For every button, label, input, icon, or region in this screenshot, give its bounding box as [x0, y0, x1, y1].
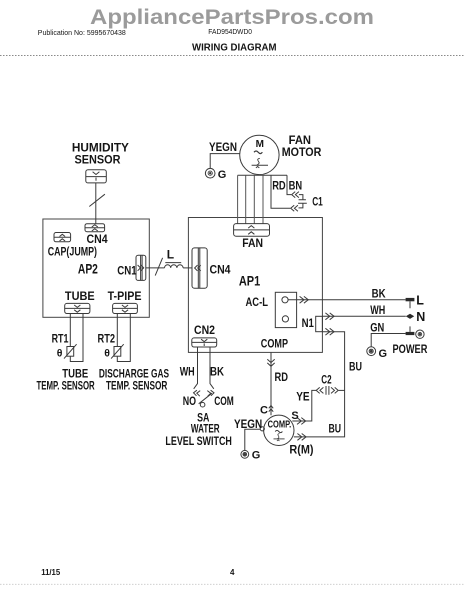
- svg-text:BU: BU: [329, 422, 342, 436]
- svg-text:FAN: FAN: [242, 236, 263, 250]
- wire BK to L terminal: [288, 299, 406, 301]
- svg-text:G: G: [218, 169, 227, 181]
- arrows down on RD wire: [267, 359, 274, 366]
- header dotted rule: [0, 55, 464, 57]
- label FAN MOTOR: [282, 133, 322, 159]
- wire RD to capacitor C1: [271, 175, 290, 208]
- svg-text:4: 4: [230, 568, 235, 577]
- svg-text:C: C: [260, 405, 268, 417]
- svg-text:R(M): R(M): [289, 443, 313, 457]
- label SA WATER LEVEL SWITCH: [165, 411, 232, 449]
- svg-text:L: L: [416, 294, 424, 308]
- svg-text:C2: C2: [321, 375, 331, 387]
- svg-text:WATER: WATER: [191, 424, 220, 436]
- svg-text:DISCHARGE GAS: DISCHARGE GAS: [99, 368, 169, 380]
- svg-text:FAD954DWD0: FAD954DWD0: [208, 27, 252, 36]
- wire GN to ground G: [371, 334, 405, 347]
- connector FAN: [234, 224, 270, 250]
- wire inductor to CN4 (AP1): [183, 267, 192, 269]
- terminal arrows BN: [292, 192, 299, 198]
- svg-text:SA: SA: [197, 411, 210, 425]
- svg-text:G: G: [252, 449, 261, 461]
- capacitor C2: [316, 375, 344, 395]
- svg-text:YE: YE: [296, 390, 309, 404]
- svg-text:GN: GN: [370, 320, 384, 334]
- connector TUBE: [65, 289, 95, 314]
- power terminal ground: [406, 326, 424, 338]
- terminal arrows BK: [300, 296, 309, 303]
- svg-text:CN1: CN1: [117, 264, 137, 278]
- svg-text:L: L: [167, 248, 174, 262]
- svg-text:BK: BK: [372, 286, 386, 300]
- wire BK from CN2 to switch COM: [210, 347, 214, 389]
- svg-text:CN2: CN2: [194, 323, 215, 337]
- svg-text:COMP.: COMP.: [268, 418, 292, 430]
- thermistor RT2 loop wires: [117, 314, 130, 362]
- board AP1 box: [188, 218, 322, 353]
- ground G (power): [367, 347, 387, 360]
- wire RD board to compressor C: [270, 352, 272, 415]
- svg-text:YEGN: YEGN: [209, 140, 237, 154]
- svg-text:AP1: AP1: [239, 273, 260, 289]
- svg-text:TUBE: TUBE: [62, 368, 88, 380]
- svg-text:MOTOR: MOTOR: [282, 145, 322, 159]
- board AP2 box: [43, 219, 149, 317]
- wire break slash: [155, 258, 162, 276]
- svg-text:CAP(JUMP): CAP(JUMP): [48, 245, 97, 259]
- thermistor RT1 loop wires: [70, 314, 83, 362]
- svg-text:COMP: COMP: [261, 337, 288, 351]
- svg-text:RD: RD: [272, 178, 286, 192]
- svg-text:M: M: [256, 139, 264, 150]
- thermistor RT1: [52, 331, 77, 359]
- label tube temp sensor: [37, 368, 96, 392]
- svg-text:TUBE: TUBE: [65, 289, 95, 303]
- inductor L: [165, 248, 184, 268]
- arrows up at compressor C terminal: [269, 405, 273, 411]
- wire motor to ground: [210, 154, 240, 169]
- svg-text:COM: COM: [214, 394, 234, 408]
- compressor motor: [264, 415, 294, 445]
- arrows on S wire: [297, 418, 306, 425]
- svg-text:POWER: POWER: [393, 342, 428, 356]
- switch SA blade: [199, 393, 212, 404]
- svg-text:T-PIPE: T-PIPE: [108, 289, 142, 303]
- svg-text:SENSOR: SENSOR: [75, 153, 121, 167]
- connector CAP(JUMP): [48, 233, 97, 259]
- compressor case terminal: [260, 427, 264, 431]
- wire YEGN compressor to ground: [245, 429, 260, 450]
- svg-text:RD: RD: [275, 370, 289, 384]
- connector CN1 on AP2 right edge: [117, 255, 146, 280]
- svg-text:CN4: CN4: [210, 263, 231, 277]
- svg-text:BK: BK: [210, 365, 224, 379]
- thermistor RT2: [98, 331, 124, 359]
- arrows on R wire: [297, 434, 306, 441]
- svg-text:N1: N1: [302, 316, 315, 330]
- humidity sensor connector: [86, 170, 107, 183]
- wire S terminal to C2: [292, 390, 316, 421]
- connector AC-L: [246, 292, 297, 327]
- svg-text:G: G: [379, 348, 388, 360]
- svg-text:WIRING DIAGRAM: WIRING DIAGRAM: [192, 41, 277, 53]
- svg-text:Publication No: 5995670438: Publication No: 5995670438: [38, 28, 126, 37]
- svg-text:AppliancePartsPros.com: AppliancePartsPros.com: [90, 5, 374, 29]
- wire humidity sensor to CN4: [95, 183, 97, 224]
- ground G (compressor): [241, 449, 260, 461]
- wire break slash: [89, 194, 105, 206]
- capacitor C1: [298, 195, 323, 209]
- svg-text:θ: θ: [104, 347, 110, 359]
- label discharge gas temp sensor: [99, 368, 169, 392]
- svg-text:RT1: RT1: [52, 331, 69, 345]
- motor lead wires to FAN connector: [238, 175, 263, 223]
- terminal arrows BU: [325, 328, 334, 335]
- motor bottom bus wire: [238, 174, 287, 176]
- svg-text:RT2: RT2: [98, 331, 116, 345]
- connector CN4 (AP2): [85, 224, 108, 246]
- svg-text:TEMP. SENSOR: TEMP. SENSOR: [37, 381, 96, 393]
- terminal arrows RD: [291, 205, 298, 211]
- svg-text:YEGN: YEGN: [234, 417, 262, 431]
- connector CN4 (AP1 left edge): [192, 248, 231, 288]
- svg-text:TEMP. SENSOR: TEMP. SENSOR: [106, 381, 168, 393]
- svg-text:AP2: AP2: [78, 261, 98, 277]
- connector N1: [302, 316, 323, 332]
- switch SA terminal arrows: [194, 390, 201, 396]
- fan motor M1: [240, 135, 279, 174]
- connector CN2: [192, 323, 217, 347]
- svg-text:WH: WH: [180, 365, 195, 379]
- svg-text:θ: θ: [57, 347, 63, 359]
- terminal arrows WH: [325, 313, 334, 320]
- svg-text:NO: NO: [183, 394, 196, 408]
- wire BU from N1 down to compressor R: [294, 332, 345, 437]
- svg-text:LEVEL SWITCH: LEVEL SWITCH: [165, 436, 232, 448]
- svg-text:C1: C1: [312, 196, 323, 208]
- svg-text:N: N: [416, 310, 425, 324]
- power terminal N: [406, 310, 426, 324]
- wire WH to N terminal: [322, 315, 405, 317]
- ground G (fan motor): [205, 168, 226, 181]
- svg-text:S: S: [291, 410, 298, 422]
- svg-text:BN: BN: [289, 178, 303, 192]
- svg-text:BU: BU: [349, 360, 362, 374]
- wire BN to capacitor C1: [287, 175, 291, 194]
- wire WH from CN2 to switch NO: [194, 347, 198, 389]
- footer faint rule: [0, 583, 464, 585]
- svg-text:WH: WH: [370, 303, 385, 317]
- switch SA float hook: [200, 402, 205, 407]
- power terminal L: [406, 294, 425, 309]
- humidity sensor label: [72, 141, 129, 167]
- svg-text:11/15: 11/15: [41, 568, 61, 577]
- wire CN1 to inductor L: [146, 267, 165, 269]
- connector T-PIPE: [108, 289, 142, 314]
- svg-text:AC-L: AC-L: [246, 295, 269, 309]
